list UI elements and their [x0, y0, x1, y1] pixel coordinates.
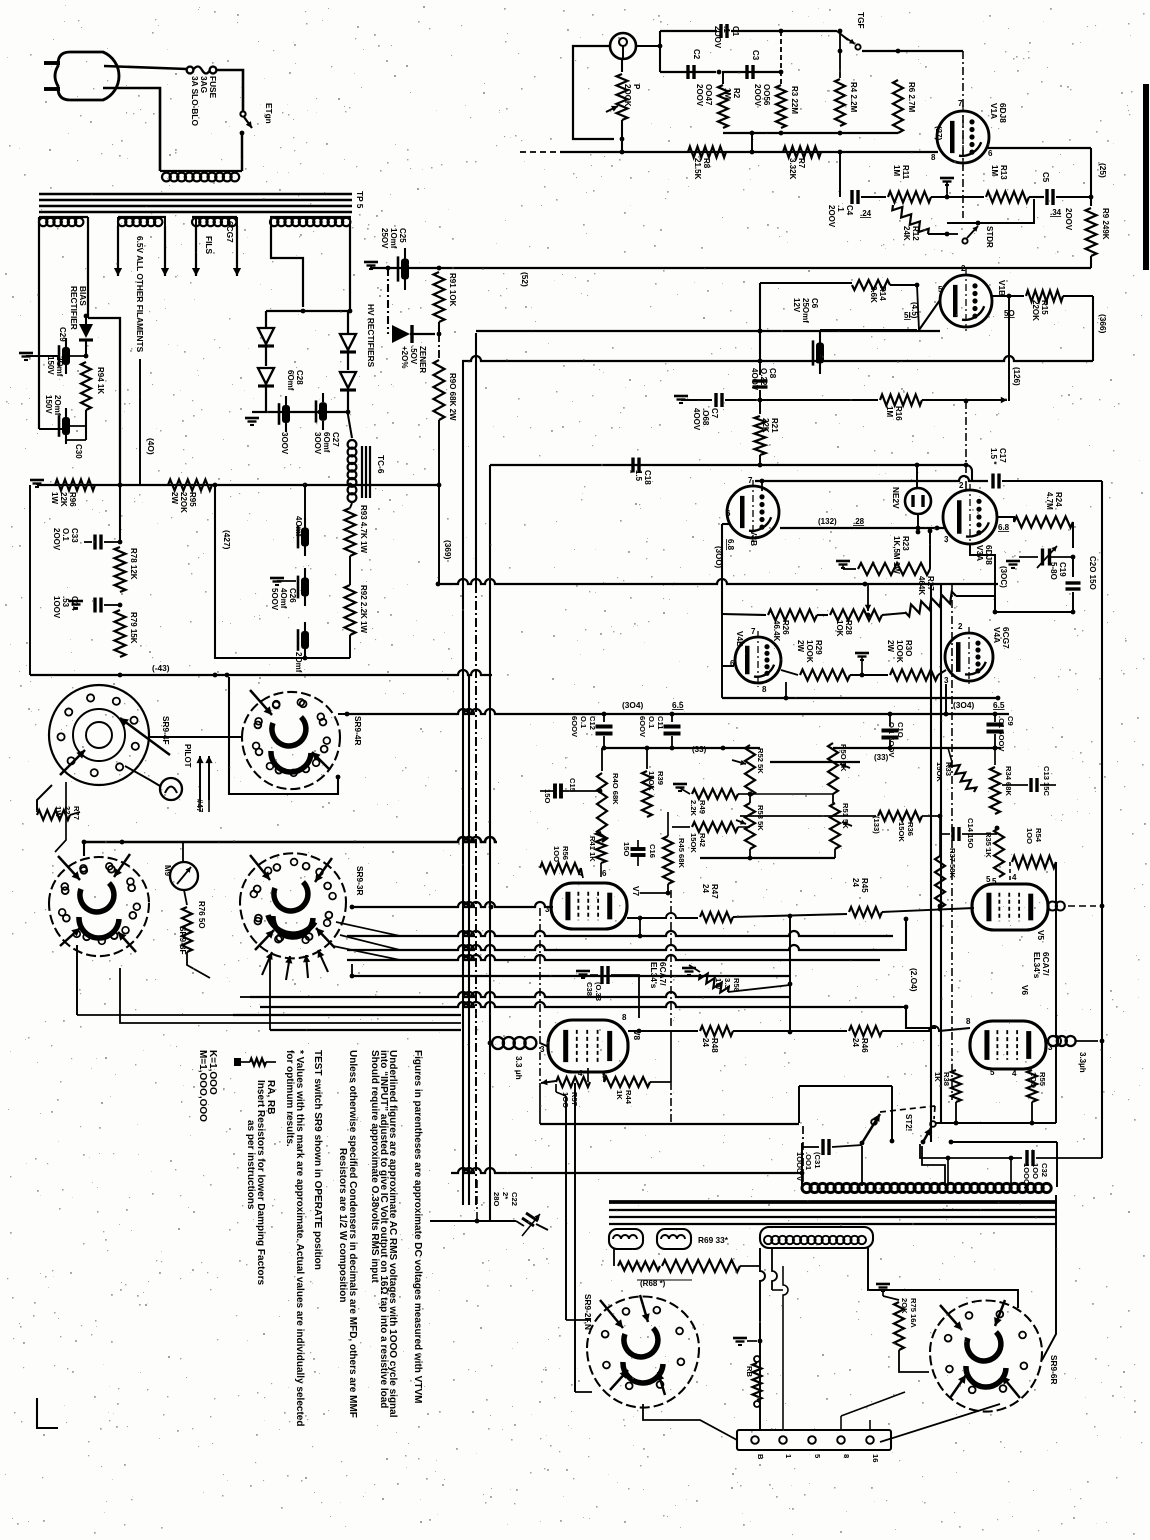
wiper bus: [770, 761, 860, 763]
svg-text:R8: R8: [702, 158, 711, 169]
output transformer core 1: [609, 1200, 1057, 1204]
svg-text:R44: R44: [624, 1090, 633, 1105]
resistor R30: [890, 670, 938, 681]
capacitor C8: [759, 331, 761, 375]
svg-text:R76 5O: R76 5O: [197, 901, 206, 929]
resistor R44: [603, 1072, 605, 1082]
driver coupling vertical: [789, 916, 791, 1032]
resistor R47: [642, 913, 698, 918]
strip link wires: [840, 1416, 842, 1430]
bus vertical 1: [462, 362, 464, 1205]
resistor R41: [596, 832, 606, 863]
4R wire right: [338, 713, 347, 715]
svg-text:EL34's: EL34's: [1032, 952, 1042, 979]
R38 drop to ST2: [955, 1102, 957, 1123]
svg-text:6: 6: [726, 509, 731, 518]
switch ST2 frame: [799, 1085, 892, 1087]
C32 taps to coil: [947, 1158, 949, 1186]
svg-text:5-8O: 5-8O: [1049, 562, 1058, 580]
filament winding D (HV): [270, 216, 351, 218]
svg-text:1W: 1W: [50, 492, 59, 504]
potentiometer R52: [745, 745, 755, 796]
svg-text:C26: C26: [288, 588, 297, 603]
terminal 1: [779, 1436, 787, 1444]
svg-text:6Omf: 6Omf: [322, 432, 331, 453]
capacitor C12: [603, 714, 605, 722]
svg-text:SR9-6R: SR9-6R: [1049, 1355, 1059, 1385]
svg-text:R15: R15: [1040, 300, 1049, 315]
svg-text:C9: C9: [1006, 716, 1015, 726]
capacitor C15: [553, 784, 557, 799]
V4 box line: [722, 697, 998, 699]
secondary winding a: [609, 1229, 643, 1249]
resistor R92: [345, 585, 356, 635]
V3B pin6 wire: [722, 523, 731, 525]
svg-text:1OO: 1OO: [552, 846, 561, 862]
svg-text:HV RECTIFIERS: HV RECTIFIERS: [366, 304, 376, 368]
capacitor C14: [939, 816, 941, 834]
socket 2F to strip wire: [643, 1404, 737, 1440]
resistor R78: [115, 547, 126, 592]
svg-text:(C31: (C31: [813, 1152, 822, 1169]
svg-text:2Omf: 2Omf: [294, 652, 303, 673]
capacitor C10: [889, 714, 891, 726]
capacitor C33: [119, 318, 121, 542]
svg-text:1OOK: 1OOK: [805, 640, 814, 663]
resistor R36: [740, 815, 876, 817]
svg-text:6OOV: 6OOV: [570, 716, 579, 738]
svg-text:24: 24: [701, 884, 710, 893]
svg-text:RB: RB: [745, 1366, 754, 1377]
capacitor C20: [1072, 557, 1074, 577]
svg-text:R45 68K: R45 68K: [677, 838, 686, 868]
svg-text:R77: R77: [72, 806, 81, 820]
svg-text:1Omf: 1Omf: [389, 228, 398, 249]
svg-text:R56: R56: [561, 846, 570, 860]
svg-text:15O: 15O: [622, 842, 631, 856]
svg-text:150V: 150V: [46, 356, 55, 375]
svg-text:8: 8: [622, 1013, 627, 1022]
bus vertical 3: [489, 465, 491, 1221]
resistor R91: [434, 272, 445, 322]
terminal strip: [737, 1430, 891, 1450]
svg-text:C11: C11: [656, 716, 665, 730]
svg-text:R34 68K: R34 68K: [1004, 766, 1013, 796]
wire R28-R27: [882, 613, 905, 615]
fuse F1: [187, 67, 194, 74]
svg-text:24: 24: [851, 878, 860, 887]
resistor R8: [688, 147, 726, 158]
line y361: [462, 356, 1093, 361]
line y1124: [540, 1123, 799, 1125]
svg-text:C13 15C: C13 15C: [1042, 766, 1051, 796]
svg-text:1M: 1M: [885, 406, 894, 417]
svg-text:1OOK: 1OOK: [895, 640, 904, 663]
resistor R79: [115, 610, 126, 657]
R28 junction arrow: [867, 584, 869, 611]
resistor R48: [700, 1026, 733, 1036]
svg-text:C33: C33: [70, 528, 79, 543]
wire switch to primary: [241, 135, 243, 171]
resistor R39: [646, 748, 648, 769]
svg-text:TGF: TGF: [856, 12, 866, 29]
svg-text:8: 8: [762, 685, 767, 694]
resistor R58: [699, 974, 728, 993]
svg-text:22K: 22K: [761, 418, 770, 433]
choke 3.3uh left: [488, 1041, 493, 1046]
svg-text:C1O: C1O: [896, 722, 905, 738]
svg-text:2: 2: [961, 264, 966, 273]
filament winding C: [192, 216, 237, 218]
svg-text:3: 3: [944, 676, 949, 685]
resistor R24: [1014, 517, 1073, 528]
winding C lead arrow 2: [236, 226, 238, 276]
svg-text:25Omf: 25Omf: [801, 298, 810, 323]
ground R23: [836, 560, 850, 563]
4R wire lower: [336, 775, 341, 780]
ground V1A: [940, 177, 954, 180]
svg-text:150V: 150V: [44, 395, 53, 414]
svg-text:R53 5K: R53 5K: [756, 805, 765, 831]
transformer T1 core line 4: [39, 211, 352, 214]
3R bottom arrows: [262, 952, 272, 975]
svg-text:3.3µh: 3.3µh: [1078, 1052, 1087, 1073]
trimmer C22: [516, 1221, 524, 1226]
tube V1B: [940, 275, 992, 327]
potentiometer R53: [745, 803, 755, 849]
winding B lead arrow 2: [164, 226, 166, 276]
secondary drop wires: [760, 1248, 765, 1431]
capacitor C32: [1025, 1150, 1028, 1166]
svg-text:1W: 1W: [714, 978, 723, 990]
capacitor C5: [1029, 196, 1044, 198]
V4A pin3 down: [945, 684, 947, 714]
capacitor C18: [631, 458, 634, 473]
resistor R69: [662, 1260, 740, 1272]
node 40 wire: [139, 359, 141, 485]
svg-text:R28: R28: [844, 620, 853, 635]
svg-text:O.22: O.22: [759, 368, 768, 386]
svg-text:PILOT: PILOT: [183, 744, 192, 768]
svg-text:7: 7: [751, 627, 756, 636]
wire fuse to switch: [216, 70, 243, 111]
svg-text:6: 6: [988, 149, 993, 158]
svg-text:.28: .28: [853, 517, 865, 526]
capacitor C9: [994, 714, 996, 722]
jack ground wire: [573, 46, 614, 139]
svg-text:(33): (33): [874, 753, 889, 762]
svg-text:3: 3: [545, 905, 550, 914]
svg-text:SR9-3R: SR9-3R: [355, 866, 365, 896]
svg-text:6.8: 6.8: [998, 523, 1010, 532]
resistor R15: [992, 295, 1024, 297]
ST2 output line: [949, 1140, 954, 1145]
resistor R94: [84, 354, 89, 359]
resistor R27: [905, 592, 956, 617]
V3A pin3 wire: [970, 545, 995, 612]
plug-in resistor RB: [754, 1356, 760, 1362]
svg-text:R45: R45: [860, 878, 869, 893]
svg-text:C7: C7: [710, 408, 719, 419]
network line right y748: [833, 747, 1001, 749]
svg-text:R16: R16: [894, 406, 903, 421]
wire to C1: [636, 45, 660, 47]
svg-text:C12: C12: [588, 716, 597, 730]
svg-text:V3A: V3A: [975, 545, 985, 561]
capacitor C16: [631, 847, 646, 851]
svg-text:(27): (27): [934, 126, 943, 141]
svg-text:28O: 28O: [492, 1192, 501, 1206]
V3B to V3A link: [780, 527, 944, 529]
socket SR9-3F: [49, 857, 149, 903]
svg-text:R29: R29: [814, 640, 823, 655]
svg-text:1OO: 1OO: [1029, 1072, 1038, 1088]
resistor R45: [663, 836, 673, 884]
svg-text:4OOV: 4OOV: [750, 368, 759, 391]
wire plug to primary: [103, 88, 160, 171]
winding B lead arrow 1: [117, 226, 119, 276]
svg-text:2: 2: [958, 622, 963, 631]
svg-text:R92 2.2K 1W: R92 2.2K 1W: [359, 585, 368, 633]
line y331: [476, 330, 940, 332]
HV center wire: [266, 310, 350, 312]
wire R90 down to 369 node: [438, 420, 440, 485]
svg-text:M9: M9: [163, 865, 172, 877]
svg-text:(3OC): (3OC): [999, 566, 1008, 588]
tube V7: [551, 883, 627, 929]
ground C38: [576, 970, 590, 973]
svg-text:R33: R33: [944, 762, 953, 776]
svg-text:4Omf: 4Omf: [294, 516, 303, 537]
svg-text:R95: R95: [188, 492, 197, 507]
svg-text:5I: 5I: [904, 311, 911, 320]
svg-text:1M: 1M: [892, 165, 901, 176]
svg-text:C5: C5: [1041, 172, 1050, 183]
svg-text:5OOV: 5OOV: [270, 588, 279, 611]
svg-text:1M: 1M: [990, 165, 999, 176]
svg-text:C14 15O: C14 15O: [966, 818, 975, 848]
svg-text:1OK: 1OK: [835, 620, 844, 637]
network line left y748: [602, 747, 760, 749]
switch ST2 arm 1: [860, 1141, 865, 1146]
line y714: [347, 709, 1009, 714]
svg-text:2Omf: 2Omf: [55, 356, 64, 377]
svg-text:2OOV: 2OOV: [695, 84, 704, 107]
left bus joins: [270, 1029, 461, 1031]
svg-text:(366): (366): [1098, 314, 1108, 334]
wire R26-R28: [817, 614, 828, 616]
choke TC-6 wire down: [348, 415, 352, 438]
svg-text:R5O 5K: R5O 5K: [839, 744, 848, 772]
resistor R54: [1012, 856, 1056, 868]
svg-text:1.5 *: 1.5 *: [989, 448, 998, 465]
plug prong 1: [44, 61, 60, 65]
switch TGF: [837, 31, 848, 40]
svg-text:Should require approximate O.3: Should require approximate O.38volts RMS…: [369, 1050, 380, 1283]
secondary winding b: [657, 1229, 691, 1249]
line to C20 bottom: [995, 611, 1073, 613]
SR9-4F to 4R link: [148, 736, 243, 738]
svg-text:R21: R21: [770, 418, 779, 433]
svg-text:2.2K: 2.2K: [689, 800, 698, 817]
svg-text:R4 2.2M: R4 2.2M: [849, 82, 858, 113]
svg-text:R79 15K: R79 15K: [129, 612, 138, 644]
resistor R90: [438, 334, 440, 360]
neon lamp NE2V: [905, 488, 931, 514]
left bottom feed 2: [240, 996, 250, 998]
svg-text:1M: 1M: [723, 88, 732, 99]
stray wire bottom left: [37, 1398, 58, 1428]
socket SR9-6R: [930, 1300, 1042, 1352]
svg-text:R11: R11: [901, 165, 910, 180]
svg-text:V1B: V1B: [997, 280, 1007, 296]
HV rectifier diode D1: [258, 328, 274, 344]
line y465 C18: [490, 464, 966, 466]
meter M9 wire: [182, 842, 184, 862]
svg-text:3.3: 3.3: [723, 978, 732, 989]
svg-text:.24: .24: [860, 209, 872, 218]
svg-text:6Omf: 6Omf: [286, 370, 295, 391]
svg-text:V1A: V1A: [989, 103, 999, 119]
svg-text:C17: C17: [998, 448, 1007, 463]
potentiometer R50: [828, 743, 838, 794]
svg-text:21.5K: 21.5K: [693, 158, 702, 180]
svg-text:+2O%: +2O%: [400, 346, 409, 368]
svg-text:22OK: 22OK: [1031, 300, 1040, 321]
svg-text:R7: R7: [797, 158, 806, 169]
resistor R38: [951, 1070, 961, 1102]
potentiometer P 200K: [621, 58, 623, 72]
svg-text:O.1: O.1: [61, 528, 70, 541]
ground network: [673, 783, 687, 786]
svg-text:1OOV: 1OOV: [52, 596, 61, 619]
capacitor C25: [404, 248, 406, 259]
svg-text:R46: R46: [860, 1038, 869, 1053]
resistor R56: [540, 863, 581, 873]
resistor R2: [722, 72, 724, 84]
svg-text:2Omf: 2Omf: [53, 395, 62, 416]
terminal 5: [808, 1436, 816, 1444]
resistor R6: [893, 80, 903, 133]
svg-text:6.8: 6.8: [726, 539, 735, 551]
heater line A: [84, 837, 497, 842]
tube V5: [972, 884, 1048, 930]
HV rectifier diode D3: [340, 334, 356, 350]
svg-text:R91 1OK: R91 1OK: [448, 273, 457, 307]
ground left filter: [30, 479, 44, 482]
filament winding B: [118, 216, 166, 218]
svg-text:C2O 15O: C2O 15O: [1088, 556, 1097, 590]
resistor R3 branch: [780, 31, 782, 85]
svg-text:V5: V5: [1036, 930, 1046, 941]
svg-text:6.5V ALL OTHER FILAMENTS: 6.5V ALL OTHER FILAMENTS: [135, 236, 145, 353]
wire R15 to 366 bus: [1092, 296, 1094, 361]
svg-text:22K: 22K: [59, 492, 68, 507]
filter cap 20mf: [304, 622, 306, 631]
svg-text:OO47: OO47: [704, 84, 713, 106]
filter cap 40mf b: [270, 577, 284, 580]
svg-text:(427): (427): [222, 530, 232, 550]
ground R58: [682, 967, 696, 970]
svg-text:2W: 2W: [886, 640, 895, 652]
svg-text:TP 5: TP 5: [355, 191, 365, 209]
R55 drop to ST2: [1031, 1102, 1033, 1123]
svg-text:(132): (132): [818, 517, 837, 526]
bias rectifier diode: [84, 314, 89, 319]
svg-text:OO56: OO56: [762, 84, 771, 106]
3F bottom drop: [76, 945, 78, 1015]
capacitor C2: [686, 65, 689, 79]
svg-text:(3O4): (3O4): [622, 700, 643, 710]
winding A bottom wire: [39, 428, 66, 430]
svg-text:4Omf: 4Omf: [279, 588, 288, 609]
resistor R46: [849, 1026, 882, 1036]
resistor R42: [672, 826, 690, 828]
svg-text:R54: R54: [1034, 828, 1043, 843]
right feedback vertical: [1101, 481, 1103, 1158]
svg-text:R42: R42: [698, 833, 707, 847]
terminal 16: [866, 1436, 874, 1444]
svg-text:R37 58K: R37 58K: [948, 848, 957, 878]
svg-text:R78 12K: R78 12K: [129, 548, 138, 580]
HV rectifier diode D4: [340, 372, 356, 388]
ground at C25: [364, 261, 378, 264]
svg-text:TC-6: TC-6: [376, 455, 386, 474]
svg-text:R38: R38: [942, 1072, 951, 1086]
svg-text:R4O 68K: R4O 68K: [611, 773, 620, 805]
svg-text:1.5: 1.5: [634, 470, 643, 482]
svg-text:C28: C28: [295, 370, 304, 385]
svg-text:C30: C30: [74, 444, 83, 459]
pilot lamp #47: [160, 778, 182, 800]
choke TC-6: [348, 440, 357, 449]
svg-text:(25): (25): [1098, 163, 1108, 178]
V4B pin wires: [722, 665, 734, 667]
wire down to C6: [760, 282, 852, 284]
line C17 to right edge: [966, 465, 972, 481]
svg-text:6: 6: [602, 869, 607, 878]
tube V6: [970, 1021, 1046, 1069]
svg-text:R13: R13: [999, 165, 1008, 180]
bus line y960: [347, 955, 880, 960]
svg-text:ST2!: ST2!: [904, 1114, 913, 1131]
svg-text:(33): (33): [692, 745, 707, 754]
svg-text:4: 4: [1012, 873, 1017, 882]
B+ (52) line: [371, 267, 1091, 269]
pilot lamp wire: [125, 766, 160, 786]
SR9-3R inner arc 2: [268, 915, 315, 934]
svg-text:V6: V6: [1020, 985, 1030, 996]
output transformer core 2: [609, 1209, 1057, 1211]
svg-text:.1: .1: [836, 205, 845, 212]
svg-text:R12: R12: [911, 226, 920, 241]
tube V4B: [735, 637, 781, 683]
feedback corner: [1100, 1157, 1102, 1159]
resistor R76: [184, 890, 187, 905]
bus line y950: [347, 945, 900, 950]
svg-text:4OOV: 4OOV: [692, 408, 701, 431]
resistor R57: [541, 1081, 556, 1083]
bottom rail oscillator: [723, 132, 898, 134]
socket SR9-3R: [240, 853, 346, 902]
ground R75: [876, 1283, 890, 1286]
svg-text:R3 22M: R3 22M: [790, 86, 799, 114]
AC plug: [55, 52, 119, 100]
svg-text:C24: C24: [70, 596, 79, 611]
svg-text:2: 2: [959, 481, 964, 490]
svg-text:2OK: 2OK: [900, 1298, 909, 1314]
svg-text:(133): (133): [872, 816, 881, 834]
